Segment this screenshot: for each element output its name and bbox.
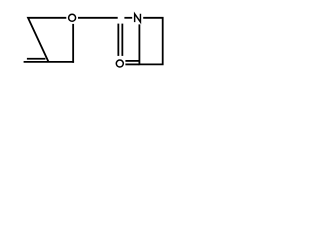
- atom N1: [135, 14, 141, 22]
- bond exocyclic C3=CH2 inner line: [27, 58, 46, 60]
- bond exocyclic C3=CH2 main line and ring1 bottom edge C3-C2: [24, 61, 74, 63]
- bond ring1 top edge C4-O1 and diagonal C4-C3: [28, 18, 66, 62]
- bond O2=C6 inner line: [125, 60, 139, 62]
- atom O2: [116, 60, 123, 67]
- bond C5-N1: [124, 17, 132, 19]
- atom O1: [69, 14, 76, 21]
- bond O2=C6 main line: [125, 63, 139, 65]
- bond O1-C5: [78, 17, 118, 19]
- bond ring2 edges N1-C9, C9-C8, C8-C6, C6-N1: [139, 18, 162, 65]
- bond ring1 right edge O1-C2: [72, 24, 74, 63]
- bond C5=O2 line b: [121, 24, 123, 56]
- bond C5=O2 line a: [117, 24, 119, 56]
